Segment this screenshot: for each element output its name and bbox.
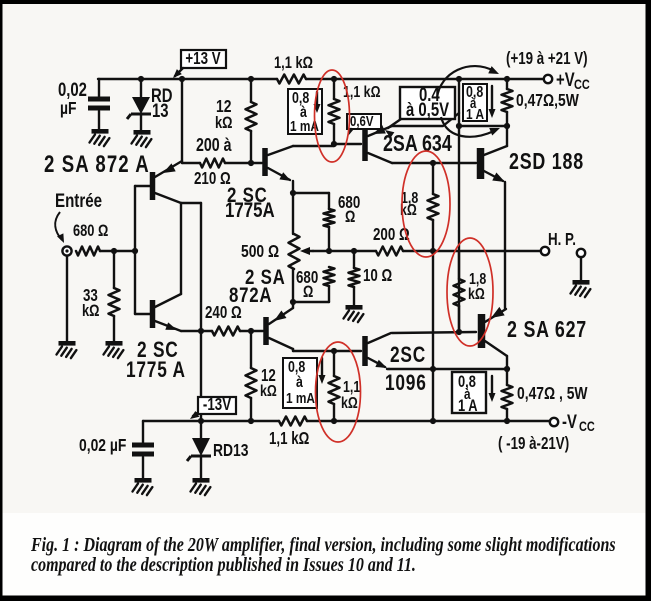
speaker return terminal with ground [577, 249, 585, 280]
label 1,1 kΩ (vertical upper) [343, 84, 381, 102]
box 0,8 à 1 A (lower) with current arrow [452, 372, 496, 415]
svg-text:13: 13 [152, 100, 169, 121]
svg-text:Ω: Ω [303, 284, 313, 302]
svg-text:-V: -V [562, 411, 577, 432]
transistor 2SA627 (PNP power) [478, 307, 507, 356]
node: 1,8k top junction [430, 160, 436, 166]
node: 12k bottom at Q3 base [248, 160, 254, 166]
svg-text:1775A: 1775A [225, 198, 275, 223]
label 0,02 µF [58, 79, 87, 118]
transistor Q4 2SA872A (middle PNP) [263, 308, 293, 349]
node: input at base line [132, 248, 138, 254]
node: base of 2SA634 [331, 141, 337, 147]
svg-text:1,1 kΩ: 1,1 kΩ [269, 430, 309, 449]
svg-text:1775 A: 1775 A [126, 358, 186, 383]
node: 680 stack centre on wiper wire [326, 248, 332, 254]
svg-text:1096: 1096 [385, 371, 427, 396]
resistor 12 kΩ (lower) [246, 331, 257, 421]
label 200 Ω [373, 226, 410, 245]
curved pointer arrow from Entrée to input jack [55, 212, 67, 244]
transistor Q1 2SA872A (input PNP) [150, 161, 182, 203]
resistor 200 Ω series [376, 247, 403, 256]
node: 0,47 bottom / 188 collector [504, 123, 510, 129]
label 680 Ω upper middle [338, 194, 360, 227]
transistor 2SC1096 (NPN) [362, 333, 391, 372]
node: 0,47 lower at bottom rail [504, 418, 510, 424]
svg-text:kΩ: kΩ [82, 303, 100, 321]
svg-text:H. P.: H. P. [548, 231, 576, 250]
svg-text:CC: CC [574, 77, 590, 93]
wire Q3 collector to 634 base node [293, 145, 334, 147]
capacitor 0,02 µF bottom-left [132, 421, 154, 478]
wire long output vertical x=433 [432, 251, 434, 421]
svg-text:à 0,5V: à 0,5V [406, 99, 450, 120]
H.P. output terminal [541, 247, 549, 255]
svg-text:0,02: 0,02 [58, 79, 87, 100]
wire 634 collector line to 188 base [392, 162, 476, 164]
resistor 1,8 kΩ (lower, circled) [454, 251, 465, 332]
label 210 Ω [194, 170, 231, 189]
wire Q4 emitter link [292, 305, 294, 308]
node: 12k lower top at Q4 base [248, 328, 254, 334]
svg-text:RD13: RD13 [213, 442, 249, 461]
wire Q1 emitter to +13V rail [181, 79, 183, 163]
node: x=459 branch [456, 123, 462, 129]
label 500 Ω [241, 243, 279, 262]
node: top of middle column [290, 190, 296, 196]
svg-text:0,6V: 0,6V [350, 113, 374, 130]
potentiometer 500 Ω [289, 234, 314, 269]
wire 200R to Q3 base [225, 162, 262, 164]
svg-text:872A: 872A [229, 283, 272, 308]
ground lead of input jack [66, 256, 68, 341]
label 0,02 µF bottom [79, 437, 127, 456]
node: 10R top [351, 248, 357, 254]
label 2SC 1096 [385, 343, 427, 396]
wire pot bottom down [292, 269, 294, 305]
ground under speaker return [573, 280, 590, 285]
ground under top 0,02µF cap [92, 129, 109, 134]
node: bus meets x=433 [430, 366, 436, 372]
+13V box label [181, 50, 226, 69]
wire Q4 collector to 1096 base [292, 349, 294, 351]
red circle around upper 1,1k resistor [315, 70, 350, 162]
svg-text:kΩ: kΩ [260, 383, 277, 401]
svg-text:Ω: Ω [345, 209, 355, 227]
node: Q2 emitter joins x=201 [198, 328, 204, 334]
label 0,47Ω,5W upper [516, 92, 580, 111]
pointer arrow from +13V box to rail [171, 68, 183, 80]
wire wiper line / H.P. output line [313, 250, 376, 252]
-13V box label [198, 396, 236, 415]
svg-text:10 Ω: 10 Ω [363, 267, 392, 286]
transistor 2SD188 (NPN power) [477, 146, 507, 186]
wire 188 collector up [506, 126, 508, 146]
node: x=459 on top rail [456, 76, 462, 82]
resistor 1,1 kΩ vertical (upper, circled) [329, 79, 340, 144]
svg-text:2SC: 2SC [390, 343, 426, 368]
label 12 kΩ upper [215, 98, 233, 133]
red circle around lower 1,1k resistor [316, 342, 361, 442]
node: 1,1k lower bottom [331, 418, 337, 424]
wire Q1 collector to x=201 branch [181, 202, 201, 204]
wire 1096 emitter to bus [387, 368, 389, 370]
label 2 SA 872 A (input) [44, 151, 150, 178]
label RD13 [213, 442, 249, 461]
wire link rail branch to 0,47 bottom [459, 125, 507, 127]
svg-text:kΩ: kΩ [341, 395, 358, 413]
svg-text:-13V: -13V [203, 396, 232, 415]
label 680 Ω lower middle [296, 269, 318, 302]
pointer arrow from -13V box to rail [188, 411, 199, 422]
wire -13V bottom supply rail [143, 420, 279, 422]
capacitor 0,02 µF top-left [88, 79, 110, 129]
wire emitter bus y=369 [389, 368, 507, 370]
resistor 33 kΩ [109, 251, 120, 341]
svg-text:1 A: 1 A [458, 398, 478, 416]
svg-text:µF: µF [60, 100, 77, 119]
svg-text:kΩ: kΩ [468, 286, 485, 304]
label 2SD 188 [509, 149, 584, 175]
label 2SA 634 [383, 131, 452, 157]
zener diode RD 13 (top) [127, 79, 151, 130]
svg-text:Fig. 1 : Diagram of the 20W am: Fig. 1 : Diagram of the 20W amplifier, f… [30, 533, 615, 555]
svg-text:2 SA 627: 2 SA 627 [507, 317, 587, 343]
resistor 680 Ω (lower middle) [324, 267, 335, 286]
wire Q1 collector to Q2 collector [180, 203, 182, 294]
resistor 240 Ω [212, 327, 240, 336]
svg-text:1 A: 1 A [466, 106, 484, 123]
node: 0,47 top on rail [504, 76, 510, 82]
node: 627 base junction [456, 329, 462, 335]
node: 12k lower bottom [248, 418, 254, 424]
label 2 SC 1775A (middle) [225, 183, 275, 223]
svg-text:12: 12 [216, 98, 232, 117]
label 33 kΩ [82, 287, 100, 321]
wire 188 emitter down to 627 emitter [504, 182, 506, 309]
wire top link to 680 stack [293, 192, 329, 194]
label H.P. [548, 231, 576, 250]
ground under top RD13 zener [134, 130, 151, 135]
transistor Q3 2SC1775A (middle NPN) [262, 146, 293, 185]
input terminal jack [62, 246, 71, 255]
wire 1,1k node to 2SA634 base [334, 143, 361, 145]
svg-text:1 mA: 1 mA [286, 390, 315, 407]
wire Q2 emitter to 240R [181, 330, 212, 332]
box 0,8 à 1 A (upper) with current arrow [463, 84, 496, 123]
label 2 SA 627 [507, 317, 587, 343]
resistor 680 Ω (upper middle) [324, 209, 335, 227]
resistor 200 à 210 Ω [182, 159, 225, 168]
transistor Q2 2SC1775A (input NPN) [150, 294, 181, 334]
node: 12k top on rail [248, 76, 254, 82]
svg-text:+V: +V [556, 69, 575, 90]
wire long vertical x=201 to negative rail [200, 203, 202, 397]
label 1,1 kΩ top [274, 55, 313, 73]
wire Q3 emitter down [292, 181, 294, 234]
ground under 10 Ω [346, 305, 363, 310]
svg-text:( -19 à-21V): ( -19 à-21V) [498, 435, 569, 454]
svg-text:(+19 à +21 V): (+19 à +21 V) [506, 50, 588, 69]
resistor 1,1 kΩ horizontal in bottom rail [279, 417, 307, 426]
node: top rail junction x=334 [331, 76, 337, 82]
label 200 à [196, 135, 232, 155]
label 1,8 kΩ lower [468, 271, 486, 304]
node: 1,1k lower top [331, 348, 337, 354]
label RD 13 [151, 85, 173, 121]
ground under 33 kΩ [106, 341, 123, 346]
svg-text:0,02 µF: 0,02 µF [79, 437, 127, 456]
node: 627 collector / 0,47 lower top [504, 366, 510, 372]
wire 1096 collector line to 627 base [392, 332, 476, 333]
label (+19 à +21 V) [506, 50, 588, 69]
red circle around upper 1,8k resistor [402, 151, 450, 257]
svg-text:compared to the description pu: compared to the description published in… [31, 553, 416, 575]
node: Q1 emitter rail tap [179, 76, 185, 82]
resistor 12 kΩ (upper) [246, 79, 257, 163]
svg-text:+13 V: +13 V [185, 50, 221, 69]
label 2 SA 872A (middle) [229, 265, 286, 308]
label 10 Ω [363, 267, 392, 286]
svg-text:200 à: 200 à [196, 135, 232, 155]
svg-text:Entrée: Entrée [55, 189, 102, 211]
svg-text:1,1 kΩ: 1,1 kΩ [274, 55, 313, 73]
label 1,8 kΩ upper [400, 190, 418, 220]
wire common base line of input pair [134, 186, 136, 314]
resistor 1,1 kΩ vertical (lower, circled) [329, 351, 340, 421]
box 0,4 à 0,5V with pointer [383, 84, 455, 138]
svg-text:500 Ω: 500 Ω [241, 243, 279, 262]
node: x=433 at bottom rail [430, 418, 436, 424]
svg-text:2SA 634: 2SA 634 [383, 131, 452, 157]
label 2 SC 1775 A (input) [126, 338, 186, 383]
wire 627 collector down [506, 356, 508, 369]
svg-text:210 Ω: 210 Ω [194, 170, 231, 189]
resistor 1,1 kΩ horizontal in top rail [277, 75, 306, 84]
border frame [0, 0, 651, 4]
node: bottom of middle column [290, 299, 296, 305]
+VCC terminal [544, 69, 590, 92]
label 1,1 kΩ bottom rail [269, 430, 309, 449]
resistor 10 Ω [349, 251, 360, 305]
wire long vertical x=459 (rail to 627 base) [458, 79, 460, 332]
label (-19 à -21V) [498, 435, 569, 454]
svg-text:kΩ: kΩ [215, 115, 233, 133]
wire bottom link to 680 stack [293, 301, 329, 303]
box 0,6V with pointer arrow [345, 113, 381, 137]
node: 33k tap [111, 248, 117, 254]
resistor 1,8 kΩ (upper, circled) [428, 163, 439, 251]
svg-text:CC: CC [579, 419, 595, 435]
zener diode RD13 (bottom) [187, 421, 211, 478]
resistor 0,47Ω 5W (upper) [502, 79, 513, 126]
wire +13V top supply rail [98, 78, 277, 80]
ground under input jack [59, 341, 76, 346]
transistor 2SA634 [362, 113, 459, 163]
wire 240R to Q4 base [240, 330, 263, 332]
label 12 kΩ lower [260, 367, 277, 401]
svg-text:2 SA 872 A: 2 SA 872 A [44, 151, 150, 178]
ground under bottom 0,02µF cap [135, 478, 152, 483]
svg-text:680 Ω: 680 Ω [73, 223, 108, 241]
label 240 Ω [205, 304, 242, 323]
label 680 Ω input [73, 223, 108, 241]
node: output node x=433 [430, 248, 436, 254]
label 1,1 kΩ (vertical lower) [341, 379, 360, 413]
resistor 680 Ω input series [76, 247, 100, 256]
svg-text:0,47Ω,5W: 0,47Ω,5W [516, 92, 580, 111]
red circle around lower 1,8k / 627 [447, 238, 493, 346]
wire input to bases [100, 250, 135, 252]
box 0,8 à 1 mA (lower) with current arrow [283, 358, 326, 408]
svg-text:2SD 188: 2SD 188 [509, 149, 584, 175]
box 0,8 à 1 mA (upper) with current arrow [288, 89, 322, 134]
wire 680 upper to mid node [328, 227, 330, 251]
label 0,47Ω 5W lower [517, 385, 588, 404]
label Entrée [55, 189, 102, 211]
node: zener RD13 junction on +13V rail [138, 76, 144, 82]
-VCC terminal [550, 411, 595, 434]
node: x=201 zener junction bottom rail [198, 418, 204, 424]
caption line 2 [31, 553, 416, 575]
ground under bottom RD13 zener [193, 478, 210, 483]
caption line 1 [30, 533, 615, 555]
svg-text:0,47Ω , 5W: 0,47Ω , 5W [517, 385, 588, 404]
hand-drawn loop arrows around 0,8-1A box [437, 66, 501, 137]
resistor 0,47Ω 5W (lower) [502, 369, 513, 421]
